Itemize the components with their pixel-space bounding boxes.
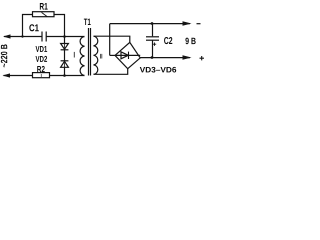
arrow: left input top [3,34,11,38]
transformer T1 primary winding I [80,37,84,76]
label plus output [200,56,205,60]
node: C2 bottom [151,56,154,59]
label 9 V [185,38,195,45]
wire: R1 right lead and vertical [54,15,65,37]
wire: AC input bottom line [4,75,34,77]
wire: output minus rail [110,23,190,25]
wire: AC input top line [4,36,42,38]
bridge rectifier VD3-VD6 [110,54,115,56]
wire: R2 to primary bottom [50,75,85,77]
wire: secondary bottom to bridge bottom [94,69,128,75]
node: top junction of diode chain [63,35,66,38]
capacitor C1 [41,32,43,42]
wire: bridge left corner up to minus rail [109,24,111,56]
label VD1 [36,46,48,52]
label II [100,54,102,59]
node: bottom junction of diode chain [63,74,66,77]
resistor R2 [33,73,50,78]
label minus [197,23,201,25]
label R1 [40,3,48,10]
diode VD1 [64,37,66,44]
arrow: output plus [183,55,192,60]
transformer core [88,28,90,76]
node: C2 top [151,22,154,25]
arrow: output minus [183,21,192,26]
diode VD2 [61,60,69,62]
resistor R1 [33,12,55,17]
wire: output plus rail [140,57,190,59]
label I [73,52,76,58]
label ~220 V rotated [1,44,7,67]
wire: R1 left vertical [23,15,34,37]
label VD2 [36,56,48,62]
label C2 [164,37,172,44]
bridge internal diode [115,54,140,56]
label R2 [37,66,45,72]
capacitor C2 [152,24,154,37]
transformer secondary winding II [94,36,98,74]
label plus of C2 [153,43,156,46]
label VD3-VD6 [140,67,176,73]
wire: secondary top to bridge top corner [94,36,130,42]
node: R1 left junction [21,35,23,37]
label C1 [29,24,38,31]
wire: between VD1 and VD2 [64,50,66,61]
wire: C1 to transformer primary top [46,36,84,38]
arrow: left input bottom [3,73,11,77]
label T1 [84,19,91,25]
